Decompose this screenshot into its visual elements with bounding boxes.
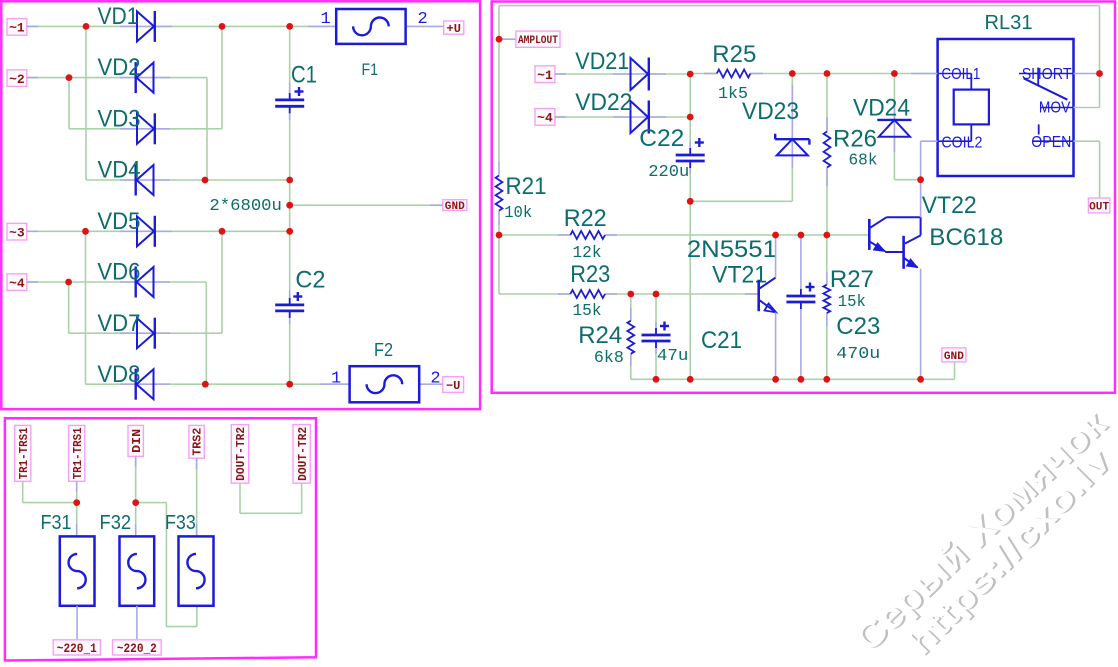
svg-text:1: 1 <box>331 369 341 388</box>
value 15k (R23) <box>573 302 602 321</box>
junction VD24 bottom node <box>917 176 924 183</box>
svg-text:2: 2 <box>430 369 440 388</box>
terminal ~4 (box2) <box>535 109 555 126</box>
wire VD5 out to VD7 out <box>221 231 223 333</box>
junction DIN <box>132 499 139 506</box>
label VD21 <box>575 48 629 75</box>
capacitor C2 <box>275 292 304 318</box>
diode VD7 <box>137 318 155 349</box>
relay coil <box>954 74 989 142</box>
junction + rail top <box>286 23 293 30</box>
wire DIN stub <box>135 456 137 536</box>
terminal DOUT-TR2 a <box>231 425 248 484</box>
wire R24 column <box>630 294 632 379</box>
label F31 <box>41 512 72 534</box>
terminal GND left <box>443 200 467 213</box>
wire VD22 out <box>649 116 690 118</box>
wire VD22 out stub <box>649 116 666 118</box>
relay pin COIL2 <box>938 135 983 152</box>
diode VD4 <box>136 165 154 196</box>
wire C1 bottom stub <box>289 106 291 120</box>
svg-text:~220_1: ~220_1 <box>57 641 97 656</box>
svg-text:C21: C21 <box>701 327 742 354</box>
wire ~1 row <box>27 25 336 27</box>
terminal TRS2 <box>189 425 205 458</box>
wire ~3 row <box>27 230 290 232</box>
svg-text:1: 1 <box>321 10 331 29</box>
wire R26 column <box>826 74 828 236</box>
label VD5 <box>97 208 140 235</box>
svg-text:~3: ~3 <box>9 225 25 240</box>
svg-text:R21: R21 <box>506 173 547 200</box>
relay contact OPEN tick <box>1038 124 1040 134</box>
wire TR1 stub <box>76 481 78 536</box>
wire C21 stubs <box>655 322 657 354</box>
svg-text:F2: F2 <box>374 340 393 360</box>
diode VD21 <box>631 58 649 91</box>
svg-text:DOUT-TR2: DOUT-TR2 <box>297 427 310 481</box>
junction R21 bottom bus2 <box>496 232 503 239</box>
border frame box 3 (mains fuse block) <box>5 418 316 660</box>
label F32 <box>100 512 132 534</box>
wire COIL2 feed <box>921 140 938 142</box>
relay contact SHORT tick <box>1037 68 1039 86</box>
label VD2 <box>98 54 141 81</box>
wire F2 output <box>419 383 443 385</box>
wire top net AMPLOUT to relay contacts <box>499 6 1100 74</box>
border frame box 1 (rectifier block) <box>1 1 480 409</box>
wire bus1 R25 row <box>690 73 937 75</box>
wire ~1 row pin stubs <box>27 25 336 27</box>
wire F1 output <box>406 25 444 27</box>
relay RL31 box <box>938 39 1074 176</box>
wire ~3 row pin stubs <box>27 230 172 232</box>
svg-text:OPEN: OPEN <box>1031 134 1071 151</box>
wire VD2 out to VD4 row <box>206 78 208 180</box>
diode VD5 <box>137 216 155 247</box>
wire C21 column <box>655 294 657 379</box>
svg-text:~2: ~2 <box>9 72 25 87</box>
wire R27 stubs <box>826 272 828 326</box>
wire MOV out <box>1074 74 1100 108</box>
wire ~2 row pin stubs <box>27 77 170 79</box>
svg-text:47u: 47u <box>657 347 689 366</box>
junction VT21 emitter <box>772 376 779 383</box>
terminal ~220_1 <box>53 640 100 656</box>
relay pin SHORT <box>1019 66 1074 83</box>
diode VD1 <box>137 11 155 42</box>
junction C22 line bottom <box>687 376 694 383</box>
svg-text:VD24: VD24 <box>853 95 910 122</box>
wire R23 row <box>499 293 759 295</box>
junction C21 bottom <box>653 376 660 383</box>
svg-text:MOV: MOV <box>1039 100 1071 117</box>
pin 2 of F1 <box>418 10 428 29</box>
svg-text:C23: C23 <box>836 313 880 340</box>
svg-text:C22: C22 <box>639 125 684 152</box>
junction GND tap <box>286 202 293 209</box>
label VT22 <box>922 192 977 219</box>
relay pin COIL1 <box>938 66 981 83</box>
wire R27 column <box>826 235 828 379</box>
svg-text:F33: F33 <box>165 512 196 534</box>
svg-text:R24: R24 <box>578 322 622 349</box>
junction VT22 emitter <box>917 376 924 383</box>
junction VD22 out <box>687 114 694 121</box>
diode VD22 <box>631 101 649 134</box>
label C21 <box>701 327 742 354</box>
svg-text:AMPLOUT: AMPLOUT <box>518 35 558 47</box>
value 6k8 <box>594 349 624 368</box>
junction mid-left <box>202 177 209 184</box>
junction C23 bottom <box>798 376 805 383</box>
wire TRS2 down <box>196 458 198 536</box>
svg-text:BC618: BC618 <box>929 224 1003 251</box>
wire VD6 out to VD8 row <box>205 282 207 384</box>
label R24 <box>578 322 622 349</box>
svg-text:R23: R23 <box>570 261 610 288</box>
junction VT21 collector <box>772 232 779 239</box>
junction R26/R27 <box>823 232 830 239</box>
label C23 <box>836 313 880 340</box>
svg-text:15k: 15k <box>838 293 866 312</box>
wire VT21 emitter <box>775 312 777 379</box>
junction F2 row C column <box>286 381 293 388</box>
wire R24 stubs <box>630 308 632 366</box>
wire VT21 collector <box>775 235 777 278</box>
label F33 <box>165 512 196 534</box>
svg-text:TR1-TRS1: TR1-TRS1 <box>72 427 85 479</box>
label C22 <box>639 125 684 152</box>
fuse F1 <box>336 9 405 44</box>
junction mid rail C column <box>286 177 293 184</box>
wire C22 column <box>689 74 691 379</box>
wire C2 top stub <box>289 290 291 305</box>
label R21 <box>506 173 547 200</box>
wire VD7 row <box>69 332 222 334</box>
svg-text:~1: ~1 <box>537 68 553 83</box>
label C2 <box>295 267 325 294</box>
wire VD8 row pin stubs <box>120 383 350 385</box>
label R23 <box>570 261 610 288</box>
label VD4 <box>98 157 141 184</box>
svg-text:COIL2: COIL2 <box>941 135 982 152</box>
watermark line 2 <box>900 442 1118 665</box>
terminal ~3 <box>7 223 27 240</box>
wire mid to C2 top <box>289 231 291 298</box>
label R25 <box>712 41 756 68</box>
wire ~3 to VD8 <box>85 231 87 384</box>
wire SHORT out <box>1074 73 1100 75</box>
junction ~3/VD8 <box>82 228 89 235</box>
svg-text:OUT: OUT <box>1089 201 1109 213</box>
wire C22 stubs <box>689 141 691 174</box>
svg-text:2: 2 <box>418 10 428 29</box>
wire R21 pin stubs <box>498 162 500 225</box>
terminal DIN <box>128 425 144 456</box>
wire ~4 to VD7 <box>68 282 70 333</box>
label BC618 <box>929 224 1003 251</box>
wire bus2 base row <box>499 234 869 236</box>
wire DIN down <box>135 456 137 536</box>
value 1k5 <box>718 85 748 104</box>
wire TR1-TRS1 link <box>23 481 77 502</box>
label VD3 <box>98 105 141 132</box>
svg-text:C2: C2 <box>295 267 325 294</box>
svg-text:R22: R22 <box>564 205 607 232</box>
label 2N5551 <box>687 236 777 263</box>
junction R26 top <box>824 70 831 77</box>
svg-text:F32: F32 <box>100 512 132 534</box>
svg-text:~4: ~4 <box>537 111 553 126</box>
wire ~4 row <box>27 281 207 283</box>
terminal ~1 <box>7 19 27 36</box>
label VD6 <box>97 259 140 286</box>
pin 1 of F1 <box>321 10 331 29</box>
value 220u <box>648 163 689 182</box>
svg-text:F1: F1 <box>362 60 379 79</box>
wire COIL1 feed stub <box>911 73 938 75</box>
label RL31 <box>985 12 1033 34</box>
fuse F31 <box>60 536 95 605</box>
junction R24 top <box>627 291 634 298</box>
fuse F32 <box>120 536 155 605</box>
resistor R27 <box>823 285 830 313</box>
wire R25 stubs <box>704 73 763 75</box>
svg-text:VD2: VD2 <box>98 54 141 81</box>
value 10k <box>504 204 532 223</box>
wire ~1 to VD4 <box>85 26 87 180</box>
resistor R22 <box>570 231 605 239</box>
label C1 <box>291 62 317 89</box>
wire bus2 R22 stubs <box>558 234 617 236</box>
svg-text:GND: GND <box>944 351 964 363</box>
junction AMPLOUT <box>496 36 503 43</box>
wire DOUT-TR2 link <box>240 483 302 513</box>
value 12k <box>573 244 602 263</box>
wire VD4 row pin stubs <box>120 179 170 181</box>
svg-text:R25: R25 <box>712 41 756 68</box>
terminal ~220_2 <box>113 640 162 656</box>
wire VD22 stubs <box>555 116 649 118</box>
wire AMPLOUT stub <box>499 38 516 40</box>
label VD23 <box>742 98 799 125</box>
svg-text:VD7: VD7 <box>97 310 140 337</box>
label VD1 <box>98 3 139 30</box>
svg-text:−U: −U <box>446 379 460 393</box>
svg-text:C1: C1 <box>291 62 317 89</box>
wire ~1 to VD21 <box>555 73 631 75</box>
terminal +U <box>444 21 464 36</box>
wire bus3 ground <box>631 362 955 379</box>
wire C1 top stub <box>289 82 291 100</box>
wire VD21 out <box>649 73 690 75</box>
relay switch arm <box>1024 78 1068 99</box>
svg-text:VD5: VD5 <box>97 208 140 235</box>
wire + rail column <box>289 26 291 93</box>
wire VT22 emitter <box>920 269 922 380</box>
terminal DOUT-TR2 b <box>293 425 310 484</box>
border frame box 2 (relay driver block) <box>492 2 1115 393</box>
label R27 <box>830 266 874 293</box>
pin 1 of F2 <box>331 369 341 388</box>
svg-text:~1: ~1 <box>9 21 25 36</box>
junction C21 top <box>653 291 660 298</box>
svg-text:VD8: VD8 <box>97 361 140 388</box>
svg-text:F31: F31 <box>41 512 72 534</box>
svg-text:68k: 68k <box>849 152 878 171</box>
svg-text:6k8: 6k8 <box>594 349 624 368</box>
capacitor C1 <box>275 87 304 113</box>
resistor R25 <box>717 70 751 78</box>
wire VD21 out stub <box>649 73 666 75</box>
label VT21 <box>712 262 767 289</box>
value 470u <box>836 345 880 364</box>
label F1 <box>362 60 379 79</box>
terminal TR1-TRS1 a <box>15 425 31 481</box>
resistor R26 <box>824 132 831 168</box>
terminal GND right <box>942 348 966 363</box>
terminal TR1-TRS1 b <box>69 425 85 481</box>
junction VD5 out <box>219 228 226 235</box>
capacitor C21 <box>642 322 671 349</box>
watermark line 1 <box>846 401 1117 661</box>
svg-text:TRS2: TRS2 <box>192 428 205 456</box>
transistor VT22 (darlington) <box>869 217 920 268</box>
svg-text:Серый Хомячок: Серый Хомячок <box>846 402 1114 660</box>
junction C22 bottom <box>687 198 694 205</box>
diode VD2 <box>136 62 154 93</box>
wire VD3 row pin stubs <box>120 128 170 130</box>
wire VD4 row / mid rail <box>86 179 290 181</box>
junction ~2/VD3 <box>66 74 73 81</box>
diode VD24 <box>877 120 911 137</box>
wire left column R21 <box>498 39 500 294</box>
wire C23 column <box>800 235 802 379</box>
capacitor C22 <box>676 138 705 168</box>
terminal ~1 (box2) <box>535 66 555 83</box>
svg-text:VD1: VD1 <box>98 3 139 30</box>
svg-text:10k: 10k <box>504 204 532 223</box>
svg-text:GND: GND <box>445 201 465 213</box>
svg-text:COIL1: COIL1 <box>941 66 980 83</box>
wire ~4 row pin stubs <box>27 281 170 283</box>
pin 2 of F2 <box>430 369 440 388</box>
svg-text:DOUT-TR2: DOUT-TR2 <box>235 427 248 481</box>
wire C2 bottom to F2 row <box>289 317 291 384</box>
svg-text:2*6800u: 2*6800u <box>209 197 282 216</box>
svg-text:VT22: VT22 <box>922 192 977 219</box>
label VD24 <box>853 95 910 122</box>
zener diode VD23 <box>775 134 809 156</box>
svg-text:VD3: VD3 <box>98 105 141 132</box>
wire VD8 row / F2 row <box>86 383 350 385</box>
junction VD23 top <box>789 70 796 77</box>
svg-text:470u: 470u <box>836 345 880 364</box>
junction VD1 out <box>219 23 226 30</box>
junction R27 bottom <box>823 376 830 383</box>
wire F31 to 220_1 <box>76 606 78 640</box>
svg-text:220u: 220u <box>648 163 689 182</box>
wire C2 bottom stub <box>289 311 291 324</box>
wire VT22 collector / COIL2 node <box>920 141 922 217</box>
wire GND tap stub <box>430 204 443 206</box>
wire ~2 to VD3 <box>68 78 70 129</box>
junction TR1-TRS1 <box>73 499 80 506</box>
label VD22 <box>575 89 632 116</box>
junction VD21 out <box>687 71 694 78</box>
wire VD23 bottom link <box>690 200 792 202</box>
diode VD6 <box>136 267 154 298</box>
resistor R21 <box>496 176 503 211</box>
value 47u <box>657 347 689 366</box>
svg-text:2N5551: 2N5551 <box>687 236 777 263</box>
svg-text:DIN: DIN <box>131 429 144 453</box>
svg-text:VD21: VD21 <box>575 48 629 75</box>
wire VD1 out to VD3 out <box>221 26 223 128</box>
svg-text:VD22: VD22 <box>575 89 632 116</box>
wire ~2 row <box>27 77 207 79</box>
wire VD7 row pin stubs <box>120 332 170 334</box>
wire C1 bottom to mid <box>289 113 291 231</box>
value 68k <box>849 152 878 171</box>
wire VD24 column <box>894 74 920 180</box>
wire GND tap <box>290 204 443 206</box>
svg-text:R27: R27 <box>830 266 874 293</box>
junction SHORT node <box>1096 70 1103 77</box>
fuse F2 <box>350 366 420 402</box>
svg-text:~220_2: ~220_2 <box>117 641 157 656</box>
svg-text:VD23: VD23 <box>742 98 799 125</box>
terminal OUT <box>1088 198 1110 213</box>
junction C23 top <box>798 232 805 239</box>
svg-text:RL31: RL31 <box>985 12 1033 34</box>
wire ~4 to VD22 <box>555 116 631 118</box>
label VD8 <box>97 361 140 388</box>
label VD7 <box>97 310 140 337</box>
wire OPEN to OUT <box>1074 141 1100 198</box>
capacitor C23 <box>786 283 815 310</box>
terminal ~2 <box>7 70 27 87</box>
svg-text:+U: +U <box>447 22 461 36</box>
svg-text:15k: 15k <box>573 302 602 321</box>
wire VD23 column <box>791 74 793 202</box>
label R26 <box>833 126 877 153</box>
svg-text:VD4: VD4 <box>98 157 141 184</box>
resistor R24 <box>627 321 634 354</box>
wire R23 row stubs <box>558 293 759 295</box>
diode VD3 <box>137 113 155 144</box>
svg-text:R26: R26 <box>833 126 877 153</box>
svg-text:TR1-TRS1: TR1-TRS1 <box>18 427 31 479</box>
label R22 <box>564 205 607 232</box>
junction mid C column low <box>286 228 293 235</box>
wire VD24 stubs <box>893 104 895 152</box>
svg-text:~4: ~4 <box>9 276 25 291</box>
wire TRS2 stub <box>196 458 198 536</box>
diode VD8 <box>136 369 154 400</box>
junction VD6/VD8 <box>202 381 209 388</box>
wire TR1-TRS1 b down <box>76 481 78 536</box>
junction VD24 top <box>891 70 898 77</box>
junction ~4/VD7 <box>65 279 72 286</box>
label F2 <box>374 340 393 360</box>
relay pin OPEN <box>1031 134 1073 151</box>
transistor VT21 <box>759 278 776 313</box>
terminal AMPLOUT <box>516 31 560 47</box>
terminal -U <box>443 377 464 393</box>
wire VD23 stubs <box>791 85 793 168</box>
